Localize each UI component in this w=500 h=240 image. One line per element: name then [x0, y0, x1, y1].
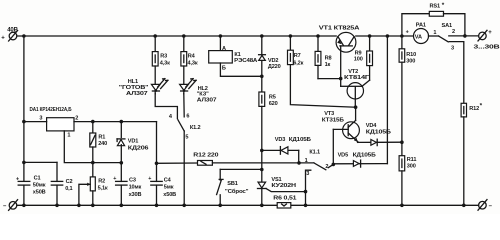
button SB1	[217, 169, 249, 205]
node SA1 contact2	[463, 34, 467, 38]
svg-text:VD1: VD1	[128, 139, 138, 145]
svg-text:C4: C4	[164, 178, 172, 184]
wire to C2	[24, 161, 57, 163]
svg-text:VA: VA	[415, 35, 422, 41]
resistor R12*	[461, 103, 483, 206]
resistor R12 220	[193, 153, 218, 166]
shunt RS1	[402, 2, 465, 36]
svg-text:+: +	[16, 177, 19, 183]
node R4 top	[182, 34, 186, 38]
resistor R2 trimmer	[79, 147, 108, 205]
svg-text:VT3: VT3	[324, 111, 334, 117]
svg-text:Д220: Д220	[268, 64, 281, 70]
node rail R11	[400, 204, 404, 208]
resistor R3	[152, 36, 170, 66]
capacitor C4	[148, 176, 176, 205]
output terminal +	[474, 30, 500, 50]
svg-text:КД105Б: КД105Б	[353, 152, 376, 158]
node VT2 collector	[354, 105, 358, 109]
wire SB1 top	[220, 168, 262, 170]
node R3 top	[153, 34, 157, 38]
svg-text:+: +	[488, 30, 492, 36]
svg-text:300: 300	[407, 164, 416, 170]
svg-text:R5: R5	[269, 94, 276, 100]
svg-text:SA1: SA1	[442, 23, 452, 29]
svg-text:КТ315Б: КТ315Б	[322, 118, 344, 124]
svg-text:C2: C2	[66, 179, 73, 185]
svg-text:6: 6	[186, 114, 189, 120]
node VS1 anode top	[260, 149, 264, 153]
resistor R1	[90, 122, 107, 148]
wire DA1 pin3	[24, 121, 47, 123]
diode VD1 zener	[117, 122, 148, 182]
resistor R4	[181, 36, 198, 66]
node VD4 junction	[400, 140, 404, 144]
svg-text:40В: 40В	[7, 28, 18, 34]
svg-text:КД206: КД206	[128, 145, 149, 151]
svg-text:DA1 КР142ЕН12А,Б: DA1 КР142ЕН12А,Б	[30, 107, 72, 113]
svg-text:R6 0,51: R6 0,51	[273, 195, 296, 201]
svg-text:АЛ307: АЛ307	[197, 97, 217, 103]
svg-text:5мк: 5мк	[164, 184, 174, 190]
svg-text:R2: R2	[98, 178, 105, 184]
wire DA1 pin2 output	[74, 121, 157, 123]
svg-text:10мк: 10мк	[129, 184, 142, 190]
node ADJ / C3	[120, 161, 124, 165]
node rail SB1	[218, 204, 222, 208]
svg-text:VD2: VD2	[268, 58, 278, 64]
svg-text:3...30В: 3...30В	[474, 45, 500, 51]
resistor R7	[288, 36, 304, 66]
transistor VT3	[322, 107, 360, 164]
svg-text:2: 2	[325, 164, 328, 170]
node VD5 rail riser	[386, 34, 390, 38]
svg-text:R10: R10	[406, 52, 416, 58]
transistor VT2	[341, 69, 371, 107]
svg-text:1к: 1к	[325, 62, 331, 68]
relay K1 coil	[209, 36, 262, 76]
node DA1 pin3 branch	[22, 120, 26, 124]
node R1 bottom	[91, 161, 95, 165]
svg-text:50мк: 50мк	[33, 183, 46, 189]
node sense	[155, 162, 159, 166]
contact K1.2	[155, 94, 200, 206]
svg-text:КД105Б: КД105Б	[289, 137, 311, 143]
input terminal -	[3, 200, 18, 211]
node rail K1.1 pin3	[304, 204, 308, 208]
diode VD5	[333, 152, 387, 167]
svg-text:+: +	[1, 35, 5, 41]
svg-text:C3: C3	[129, 178, 136, 184]
LED HL1	[119, 66, 168, 97]
svg-text:+: +	[113, 176, 116, 182]
svg-text:R11: R11	[407, 157, 417, 163]
svg-text:R1: R1	[98, 134, 105, 140]
node rail R2	[91, 204, 95, 208]
wire bottom rail left	[17, 204, 277, 206]
svg-text:5: 5	[185, 134, 188, 140]
svg-text:240: 240	[98, 141, 107, 147]
node rail C3	[120, 204, 124, 208]
resistor R9	[354, 34, 373, 80]
node VD2 top	[260, 34, 264, 38]
output terminal -	[478, 200, 493, 211]
diode VD3	[275, 137, 311, 154]
diode VD4	[358, 123, 402, 146]
wire R7 to VT2 collector node	[290, 65, 355, 108]
svg-text:"Сброс": "Сброс"	[225, 188, 249, 195]
node VT1 base / VT2	[339, 77, 343, 81]
wire bottom rail right	[291, 204, 479, 206]
svg-text:RS1: RS1	[430, 3, 440, 9]
wire top rail left	[17, 35, 336, 37]
svg-text:3: 3	[39, 116, 42, 122]
svg-text:0,1: 0,1	[65, 186, 72, 192]
contact K1.1	[305, 150, 334, 206]
svg-text:1: 1	[67, 133, 70, 139]
svg-text:АЛ307: АЛ307	[126, 91, 148, 97]
svg-text:VD4: VD4	[366, 123, 377, 129]
svg-text:3: 3	[306, 171, 309, 177]
capacitor C2	[51, 162, 72, 205]
node R10 top	[400, 34, 404, 38]
svg-text:2: 2	[75, 116, 78, 122]
svg-text:VS1: VS1	[271, 177, 281, 183]
regulator DA1	[30, 107, 79, 138]
svg-text:C1: C1	[34, 176, 41, 182]
svg-text:КУ202Н: КУ202Н	[271, 183, 296, 189]
svg-text:PA1: PA1	[416, 22, 426, 28]
node relay B junction	[260, 75, 264, 79]
node R8 top	[316, 34, 320, 38]
node relay A	[219, 34, 223, 38]
svg-text:+: +	[406, 30, 409, 36]
transistor VT1	[319, 26, 360, 79]
wire VD3 to K1.1	[298, 150, 300, 162]
svg-text:R12: R12	[469, 106, 479, 112]
svg-text:РЭС48А: РЭС48А	[234, 58, 257, 64]
node rail C4	[155, 204, 159, 208]
wire R12 to K1.1	[212, 162, 314, 164]
node input junction	[22, 34, 26, 38]
svg-text:SB1: SB1	[227, 181, 237, 187]
wire DA1 pin1	[64, 131, 121, 163]
node R1 top	[91, 120, 95, 124]
wire VD5 riser	[386, 36, 388, 164]
svg-text:3: 3	[451, 46, 454, 52]
node rail C1	[22, 204, 26, 208]
node rail R12*	[462, 204, 466, 208]
diode VD2	[259, 36, 281, 92]
svg-text:х50В: х50В	[33, 190, 46, 196]
meter PA1	[406, 22, 429, 43]
node gate junction	[304, 190, 308, 194]
node R7 top	[289, 34, 293, 38]
node rail C2	[55, 204, 59, 208]
svg-text:VD5: VD5	[338, 152, 348, 158]
svg-text:х50В: х50В	[163, 192, 176, 198]
node rail R2 wiper	[77, 204, 81, 208]
node C2 branch	[22, 161, 26, 165]
svg-text:1: 1	[305, 158, 308, 164]
wire VS1 column	[261, 150, 263, 182]
switch SA1	[429, 23, 479, 103]
svg-text:300: 300	[406, 58, 415, 64]
svg-text:КТ814Г: КТ814Г	[344, 75, 370, 81]
svg-text:6,2к: 6,2к	[293, 60, 303, 66]
svg-text:2: 2	[452, 29, 455, 35]
node VD1 top	[120, 120, 124, 124]
svg-text:VT1 КТ825А: VT1 КТ825А	[319, 26, 360, 32]
node VT3 base bottom	[332, 163, 336, 167]
svg-text:620: 620	[269, 101, 278, 107]
svg-text:х30В: х30В	[129, 192, 142, 198]
svg-text:Б: Б	[222, 65, 226, 71]
node K1.1 pin1	[297, 161, 301, 165]
svg-text:R8: R8	[325, 55, 332, 61]
svg-text:К1.2: К1.2	[190, 125, 201, 131]
svg-text:К1: К1	[234, 52, 240, 58]
svg-text:VT2: VT2	[348, 69, 358, 75]
thyristor VS1	[258, 177, 306, 206]
LED HL2	[180, 66, 217, 103]
wire top rail right of VT1	[356, 35, 414, 37]
svg-text:К1.1: К1.1	[309, 150, 320, 156]
resistor R8	[315, 36, 331, 68]
wire VD3 line	[262, 149, 299, 151]
svg-text:R4: R4	[188, 53, 196, 59]
svg-text:R7: R7	[294, 53, 301, 59]
node rail K1.2	[182, 204, 186, 208]
svg-text:4,3к: 4,3к	[160, 60, 170, 66]
capacitor C3	[113, 176, 141, 205]
wire R12 220 line	[157, 162, 198, 164]
input terminal +	[1, 28, 18, 42]
wire output sense riser	[156, 122, 158, 182]
svg-text:1: 1	[433, 30, 436, 36]
svg-text:+: +	[148, 176, 151, 182]
wire R8 to VT1 base	[317, 65, 319, 78]
wire left vertical	[23, 36, 25, 181]
svg-text:А: А	[222, 46, 226, 52]
svg-text:4,3к: 4,3к	[188, 60, 198, 66]
node SB1 junction	[260, 168, 264, 172]
resistor R10	[399, 36, 416, 156]
svg-text:5,1к: 5,1к	[98, 185, 108, 191]
svg-text:R3: R3	[160, 53, 167, 59]
svg-text:R12 220: R12 220	[193, 153, 218, 159]
resistor R5	[259, 92, 278, 150]
resistor R11	[399, 156, 416, 206]
svg-text:VD3: VD3	[275, 137, 285, 143]
node rail VS1	[260, 204, 264, 208]
svg-text:100: 100	[354, 57, 363, 63]
capacitor C1	[16, 176, 46, 196]
resistor R6	[273, 195, 296, 208]
